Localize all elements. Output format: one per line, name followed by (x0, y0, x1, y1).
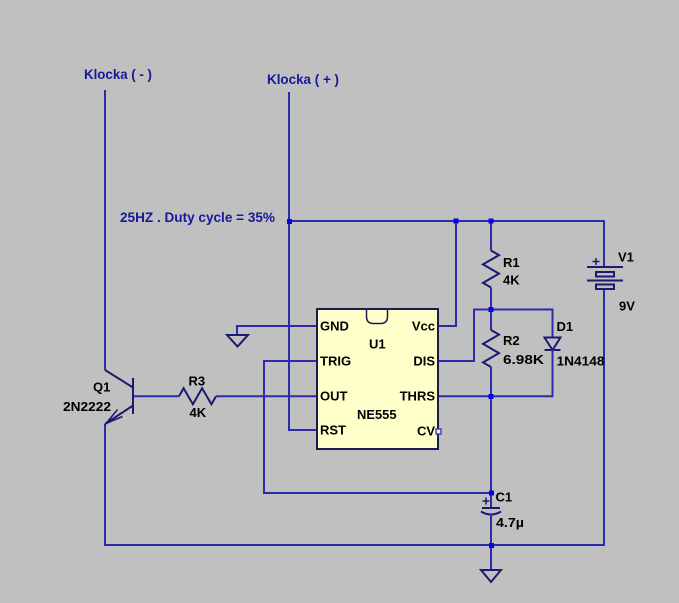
junction at R2 bottom / THRS node (489, 394, 494, 399)
resistor R2 (483, 310, 499, 397)
svg-text:RST: RST (320, 423, 346, 438)
battery plus sign (593, 258, 600, 265)
svg-text:9V: 9V (619, 299, 635, 314)
svg-text:C1: C1 (496, 490, 513, 505)
op-amp U1 555 timer body (317, 309, 438, 449)
svg-text:TRIG: TRIG (320, 354, 351, 369)
wire top rail y=221 (289, 220, 604, 222)
svg-text:4K: 4K (503, 273, 520, 288)
junction at C1 bottom / bottom rail (489, 543, 494, 548)
ground at bottom rail (490, 545, 492, 570)
svg-text:R2: R2 (503, 333, 520, 348)
wire Klocka(+) vertical down to RST (289, 92, 317, 430)
capacitor C1 plus sign (483, 498, 490, 505)
svg-text:4K: 4K (190, 405, 207, 420)
wire D1 cathode down to THRS node (491, 350, 553, 396)
svg-text:R1: R1 (503, 255, 520, 270)
svg-text:DIS: DIS (413, 354, 435, 369)
svg-text:Vcc: Vcc (412, 319, 435, 334)
wire Klocka(-) vertical to Q1 collector (104, 90, 106, 370)
diode D1 (552, 309, 554, 338)
junction at R1 top / top rail (489, 219, 494, 224)
svg-text:U1: U1 (369, 337, 386, 352)
battery V1 (587, 267, 623, 289)
svg-text:GND: GND (320, 319, 349, 334)
svg-text:Klocka ( - ): Klocka ( - ) (84, 66, 152, 82)
wire THRS to node (438, 395, 491, 397)
resistor R1 (483, 221, 499, 310)
junction at Klocka(+) / top rail (287, 219, 292, 224)
svg-text:OUT: OUT (320, 389, 348, 404)
wire TRIG loop to C1 node (264, 361, 491, 493)
svg-text:NE555: NE555 (357, 407, 397, 422)
svg-text:25HZ . Duty cycle = 35%: 25HZ . Duty cycle = 35% (120, 209, 276, 225)
wire node down to C1 (490, 396, 492, 508)
wire bottom rail y=545 (104, 544, 605, 546)
junction at R1 bottom / DIS node (489, 307, 494, 312)
wire Vcc to top rail (438, 221, 456, 326)
transistor Q1 (105, 370, 133, 424)
resistor R3 (179, 388, 216, 404)
svg-text:D1: D1 (557, 319, 574, 334)
wire battery top segment (603, 220, 605, 267)
capacitor C1 (481, 508, 501, 515)
CV unconnected pin square (436, 429, 441, 434)
wire Q1 emitter to bottom rail (104, 424, 106, 546)
svg-text:Klocka ( + ): Klocka ( + ) (267, 71, 339, 87)
svg-text:CV: CV (417, 424, 435, 439)
ground near GND pin (227, 335, 248, 347)
wire Q1 base to R3 (133, 395, 179, 397)
svg-text:THRS: THRS (400, 389, 436, 404)
svg-text:V1: V1 (618, 250, 634, 265)
wire GND pin to ground (237, 326, 317, 335)
svg-text:1N4148: 1N4148 (557, 354, 605, 369)
wire C1 bottom to rail (490, 514, 492, 545)
U1 notch (367, 310, 388, 324)
svg-text:4.7µ: 4.7µ (496, 515, 524, 530)
junction at Vcc / top rail (454, 219, 459, 224)
svg-text:R3: R3 (189, 374, 206, 389)
junction at TRIG / C1 top (489, 491, 494, 496)
svg-text:2N2222: 2N2222 (63, 399, 111, 414)
wire R3 to OUT pin (216, 395, 317, 397)
wire DIS up and over to R1/D1 node (438, 310, 553, 362)
svg-text:Q1: Q1 (93, 380, 110, 395)
wire battery bottom segment (603, 289, 605, 546)
svg-text:6.98K: 6.98K (503, 352, 545, 367)
